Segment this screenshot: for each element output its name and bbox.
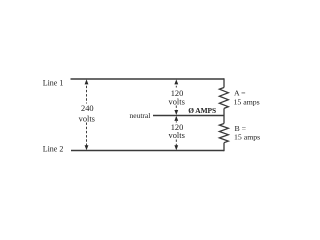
svg-text:B =: B = <box>235 124 247 133</box>
svg-text:15 amps: 15 amps <box>234 133 260 142</box>
svg-text:volts: volts <box>169 98 185 107</box>
wire between resistor A and neutral node <box>223 108 225 123</box>
wire Line 1 (top conductor) <box>71 78 225 80</box>
svg-text:Line 2: Line 2 <box>43 144 64 153</box>
resistor A <box>219 88 228 109</box>
wire lower stub (resistor B to Line 2) <box>223 143 225 152</box>
svg-text:volts: volts <box>169 131 185 140</box>
dimension arrow 120 volts lower (neutral to Line 2) <box>174 116 178 150</box>
svg-text:15 amps: 15 amps <box>234 97 260 106</box>
svg-text:volts: volts <box>79 114 95 123</box>
dimension arrow 240 volts (Line 1 to Line 2) <box>85 79 89 150</box>
svg-text:neutral: neutral <box>130 111 151 120</box>
wire neutral conductor <box>153 115 224 117</box>
dimension arrow 120 volts upper (Line 1 to neutral) <box>174 79 178 115</box>
svg-text:240: 240 <box>81 104 94 113</box>
svg-text:120: 120 <box>171 89 184 98</box>
svg-text:Ø AMPS: Ø AMPS <box>188 106 216 115</box>
svg-text:Line 1: Line 1 <box>43 79 64 88</box>
wire right vertical conductor upper stub (Line 1 to resistor A) <box>223 78 225 87</box>
wire Line 2 (bottom conductor) <box>71 150 224 152</box>
resistor B <box>219 124 228 143</box>
